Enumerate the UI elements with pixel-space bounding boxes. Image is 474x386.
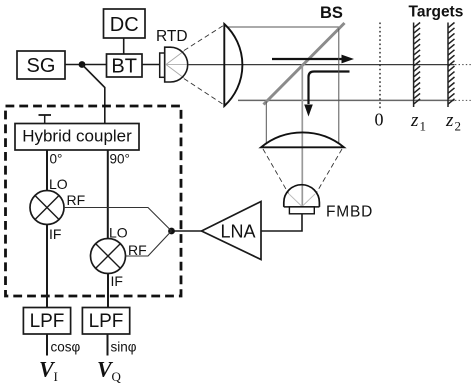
label z2 xyxy=(445,110,461,134)
svg-text:FMBD: FMBD xyxy=(326,204,373,221)
optical axis horizontal xyxy=(188,64,455,66)
svg-text:LPF: LPF xyxy=(89,311,124,332)
svg-text:DC: DC xyxy=(110,14,139,36)
wire hybrid 0deg to mixer M1 xyxy=(46,150,48,191)
node SG output junction xyxy=(79,61,86,68)
wire BT to RTD xyxy=(142,64,160,66)
label IF mixer M1 xyxy=(49,226,61,242)
termination on hybrid coupler xyxy=(39,115,52,124)
wire LPF1 output xyxy=(46,334,48,356)
RTD laser diode xyxy=(160,47,188,82)
svg-text:z: z xyxy=(410,110,419,131)
beam bottom edge dotted continuation xyxy=(455,99,473,101)
beam splitter BS diagonal xyxy=(264,23,345,105)
port label 90 deg xyxy=(110,152,130,167)
label sin phi xyxy=(111,340,137,355)
svg-text:2: 2 xyxy=(455,119,462,134)
dashed ray lens2 to FMBD right xyxy=(316,149,342,194)
svg-text:BT: BT xyxy=(111,56,137,78)
beam bottom edge xyxy=(238,99,455,101)
box LPF2 xyxy=(82,308,129,335)
port label 0 deg xyxy=(50,152,63,167)
label RF mixer M1 xyxy=(67,192,86,208)
label cos phi xyxy=(51,340,81,355)
dashed enclosure IQ demodulator xyxy=(6,106,182,296)
svg-text:IF: IF xyxy=(49,226,61,242)
arrow return beam elbow xyxy=(304,72,349,117)
label BS xyxy=(320,4,343,22)
label 0 xyxy=(375,110,384,130)
label FMBD xyxy=(326,204,373,221)
beam top edge xyxy=(228,26,340,28)
label RF mixer M2 xyxy=(128,242,147,258)
lens L2 focusing xyxy=(261,132,344,147)
svg-text:RF: RF xyxy=(67,192,86,208)
output V_Q xyxy=(97,357,122,385)
box BT xyxy=(107,54,143,78)
label Targets xyxy=(409,3,464,20)
wire mixer M2 IF to LPF2 xyxy=(107,274,109,308)
reflected beam left edge xyxy=(265,102,267,145)
wire FMBD to LNA xyxy=(261,214,302,231)
svg-text:SG: SG xyxy=(27,55,56,77)
reference plane 0 dotted xyxy=(379,23,381,110)
svg-text:0: 0 xyxy=(375,110,384,130)
wire mixer M2 RF to junction xyxy=(126,231,172,256)
wire SG to BT xyxy=(65,64,107,66)
wire LNA to RF junction xyxy=(172,230,202,232)
svg-text:Hybrid coupler: Hybrid coupler xyxy=(22,126,132,145)
label IF mixer M2 xyxy=(111,273,123,289)
box SG xyxy=(17,51,65,79)
wire DC to BT xyxy=(123,38,125,54)
svg-text:1: 1 xyxy=(420,119,427,134)
svg-text:sinφ: sinφ xyxy=(111,340,137,355)
output V_I xyxy=(39,357,58,385)
lens L1 collimating xyxy=(224,24,242,106)
dashed ray RTD to lens bottom xyxy=(184,79,225,106)
wire mixer M1 RF to junction xyxy=(64,208,172,232)
svg-text:z: z xyxy=(445,110,454,131)
wire LPF2 output xyxy=(107,334,109,356)
label z1 xyxy=(410,110,426,134)
svg-text:90°: 90° xyxy=(110,152,130,167)
mixer M1 xyxy=(30,191,64,225)
target z2 hatched xyxy=(448,23,455,108)
svg-text:RTD: RTD xyxy=(156,28,188,45)
wire junction to hybrid coupler xyxy=(82,65,105,124)
dashed ray lens2 to FMBD left xyxy=(263,149,289,194)
wire mixer M1 IF to LPF1 xyxy=(46,225,48,308)
label RTD xyxy=(156,28,188,45)
svg-text:LNA: LNA xyxy=(220,222,255,242)
mixer M2 xyxy=(91,239,126,274)
wire hybrid 90deg to mixer M2 xyxy=(107,150,109,239)
optical axis dotted continuation xyxy=(455,64,473,66)
amplifier LNA xyxy=(202,202,262,260)
svg-text:0°: 0° xyxy=(50,152,63,167)
svg-text:IF: IF xyxy=(111,273,123,289)
svg-text:Q: Q xyxy=(112,369,122,384)
arrow outgoing beam xyxy=(272,55,354,64)
box DC xyxy=(104,9,146,38)
label LO mixer M1 xyxy=(49,176,68,192)
label LO mixer M2 xyxy=(109,225,128,241)
box hybrid coupler xyxy=(15,124,139,151)
svg-text:BS: BS xyxy=(320,4,343,22)
svg-text:LO: LO xyxy=(49,176,68,192)
svg-text:I: I xyxy=(54,369,58,384)
reflected axis vertical xyxy=(301,65,303,206)
FMBD photodetector xyxy=(284,185,320,214)
dashed ray RTD to lens top xyxy=(184,25,225,51)
target z1 hatched xyxy=(414,23,421,108)
svg-text:cosφ: cosφ xyxy=(51,340,81,355)
svg-text:Targets: Targets xyxy=(409,3,464,20)
reflected beam right edge xyxy=(338,29,340,143)
box LPF1 xyxy=(23,308,70,335)
node RF junction xyxy=(168,228,175,235)
svg-text:LPF: LPF xyxy=(30,311,65,332)
